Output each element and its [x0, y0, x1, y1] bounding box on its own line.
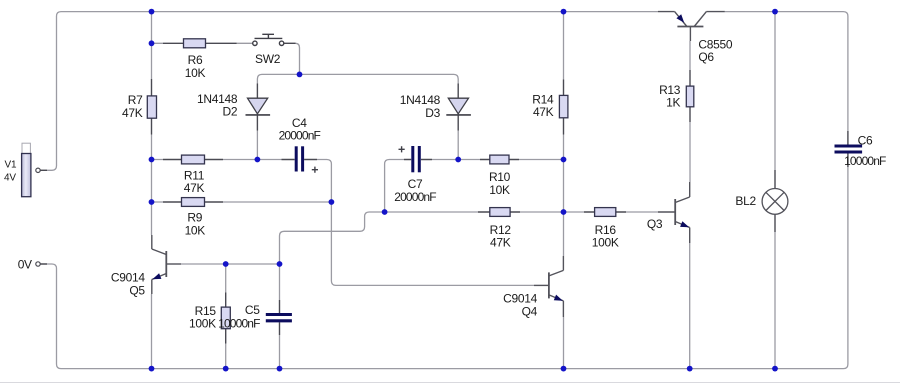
node R10 right — [561, 157, 567, 163]
lead 0V terminal — [40, 263, 47, 265]
terminal 0V — [36, 262, 40, 266]
transistor Q5 — [152, 235, 181, 294]
resistor R14 — [559, 95, 568, 117]
wire A: R12 junction to C5 junction — [280, 212, 385, 264]
wire row y=159.5 left: R11 to C4 — [152, 160, 332, 203]
node bottom rail R15 — [223, 366, 229, 372]
wire middle branch x=563.5 — [563, 12, 565, 256]
svg-text:100K: 100K — [592, 236, 619, 250]
resistor R13 — [686, 86, 694, 107]
svg-text:10K: 10K — [489, 183, 510, 197]
capacitor C4 — [296, 146, 318, 173]
node top rail / left branch — [149, 9, 155, 15]
svg-text:BL2: BL2 — [735, 194, 756, 208]
wire Q4 emitter to bottom rail — [563, 317, 565, 369]
wire BL2 branch — [774, 12, 776, 369]
wire top rail right span + right rail upper — [725, 12, 848, 131]
svg-text:20000nF: 20000nF — [394, 190, 436, 204]
lead R14 — [563, 80, 565, 135]
lead D2 — [256, 84, 258, 131]
canvas edge line — [0, 382, 900, 384]
svg-text:10000nF: 10000nF — [218, 317, 260, 331]
capacitor C5 — [266, 315, 292, 321]
node R6 branch — [149, 40, 155, 46]
transistor Q6 — [658, 12, 725, 41]
svg-text:47K: 47K — [490, 236, 511, 250]
resistor R6 — [184, 39, 206, 48]
svg-text:C5: C5 — [245, 303, 260, 317]
svg-text:100K: 100K — [189, 317, 216, 331]
lead R9 — [163, 201, 223, 203]
svg-text:SW2: SW2 — [255, 52, 281, 66]
svg-text:10000nF: 10000nF — [844, 154, 886, 168]
svg-text:D3: D3 — [425, 106, 440, 120]
lead R15 — [225, 293, 227, 344]
wire C7 left drop — [385, 160, 404, 213]
lead BL2 — [774, 170, 776, 232]
lead R16 — [584, 211, 626, 213]
wire V1 feed + top rail left span — [40, 12, 658, 171]
node D3 cathode — [455, 157, 461, 163]
lead R12 — [478, 211, 520, 213]
wire C5 branch — [279, 264, 281, 369]
resistor R7 — [147, 96, 156, 118]
node SW2 / diode bus — [297, 72, 303, 78]
resistor R16 — [595, 208, 616, 217]
lead C6 — [847, 131, 849, 167]
wire B: R9 junction down to Q4 base — [331, 202, 534, 285]
wire Q6 base to R13 — [689, 41, 691, 70]
lead R11 — [163, 159, 223, 161]
wire Q5 emitter to bottom rail — [151, 294, 153, 369]
lead R10 — [480, 159, 519, 161]
wire R12 row y=212 — [385, 211, 658, 213]
resistor R12 — [490, 208, 510, 217]
node top rail / BL2 — [772, 9, 778, 15]
node bottom rail Q4 — [561, 366, 567, 372]
svg-text:10K: 10K — [185, 223, 206, 237]
svg-text:20000nF: 20000nF — [279, 128, 321, 142]
battery V1 top cap — [22, 143, 30, 154]
lead SW2 right — [284, 42, 296, 44]
svg-text:47K: 47K — [184, 181, 205, 195]
svg-text:0V: 0V — [18, 258, 32, 272]
diode D2 — [246, 98, 271, 115]
diode D3 — [446, 98, 471, 115]
wire D2 cathode drop — [256, 131, 258, 160]
svg-text:C6: C6 — [858, 134, 873, 148]
node R11 left — [149, 157, 155, 163]
svg-text:D2: D2 — [223, 105, 238, 119]
lamp BL2 — [762, 189, 788, 215]
wire D3 cathode drop — [457, 131, 459, 160]
svg-text:V1: V1 — [5, 159, 17, 170]
node bottom rail Q5 — [149, 366, 155, 372]
node bottom rail Q3 — [687, 366, 693, 372]
resistor R10 — [490, 155, 509, 164]
lead C4 — [282, 159, 318, 161]
svg-text:10K: 10K — [185, 66, 206, 80]
switch SW2 — [253, 34, 284, 45]
lead V1 terminal — [40, 169, 47, 171]
svg-text:4V: 4V — [4, 173, 16, 184]
node R9 right — [329, 199, 335, 205]
capacitor C7 — [399, 146, 420, 172]
node bottom rail BL2 — [772, 366, 778, 372]
wire row y=159.5 right: C7 to R10 to R14 line — [432, 159, 564, 161]
wire R6 to SW2 branch — [152, 42, 253, 44]
node D2 cathode — [255, 157, 261, 163]
svg-text:47K: 47K — [533, 105, 554, 119]
node R12 right — [561, 209, 567, 215]
svg-text:Q5: Q5 — [129, 283, 145, 297]
wire 0V feed + bottom rail + right rail lower — [40, 167, 848, 369]
node top rail / middle branch — [561, 9, 567, 15]
transistor Q3 — [658, 182, 690, 243]
node R12 left — [382, 209, 388, 215]
lead R6 — [163, 42, 237, 44]
resistor R9 — [182, 198, 205, 207]
wire Q3 emitter to bottom rail — [689, 243, 691, 369]
resistor R15 — [221, 307, 230, 329]
lead C5 — [279, 300, 281, 335]
svg-text:Q3: Q3 — [647, 217, 663, 231]
transistor Q4 — [534, 256, 563, 317]
lead R13 — [689, 70, 691, 122]
capacitor C6 — [835, 146, 863, 152]
lead D3 — [457, 84, 459, 131]
svg-text:Q6: Q6 — [698, 50, 714, 64]
svg-text:Q4: Q4 — [522, 304, 538, 318]
wire R9 row y=202 — [152, 201, 332, 203]
svg-text:1K: 1K — [666, 96, 680, 110]
wire R15 branch — [225, 264, 227, 369]
wire SW2 to diode bus — [296, 43, 300, 74]
wire diode top bus y=74.4 — [257, 74, 458, 83]
wire R13 to Q3 collector — [689, 122, 691, 182]
lead R7 — [151, 79, 153, 135]
terminal V1 — [36, 168, 40, 172]
node R9 left — [149, 199, 155, 205]
node C5 top — [277, 261, 283, 267]
resistor R11 — [182, 155, 205, 164]
lead C7 — [404, 159, 432, 161]
node bottom rail C5 — [277, 366, 283, 372]
node R15 top — [223, 261, 229, 267]
wire left branch x=151.5 — [151, 12, 153, 235]
svg-text:47K: 47K — [122, 106, 143, 120]
wire Q5 base row y=264 — [181, 263, 280, 265]
